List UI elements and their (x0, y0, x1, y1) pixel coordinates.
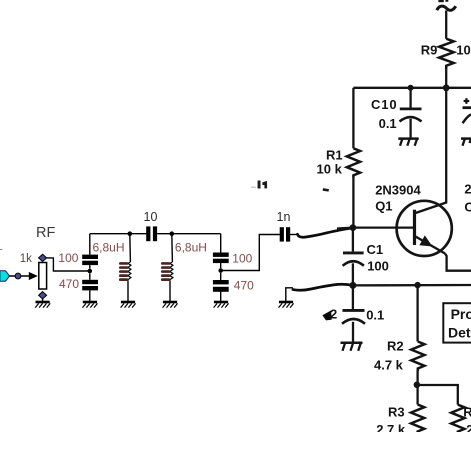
wire rail to R2 (416, 285, 418, 341)
capacitor C2 (352, 285, 354, 309)
resistor R3 (416, 385, 418, 405)
node divider junction (414, 382, 421, 389)
capacitor C1 (352, 228, 354, 252)
ground under C2 (rake) (341, 342, 363, 345)
svg-text:R2: R2 (387, 339, 404, 354)
potentiometer wiper arrow (29, 272, 38, 280)
svg-text:100: 100 (232, 252, 252, 266)
node L2 junction (170, 231, 175, 236)
wire right divider to 1n cap (221, 235, 280, 271)
resistor R1 (347, 148, 360, 177)
wire rail to R1 (352, 88, 354, 149)
svg-text:Q1: Q1 (375, 198, 392, 213)
node base junction (350, 224, 357, 231)
scan bottom cutoff (296, 432, 471, 466)
svg-text:0.1: 0.1 (379, 116, 397, 131)
svg-text:2N: 2N (464, 182, 471, 197)
svg-text:4.7 k: 4.7 k (374, 358, 404, 373)
node collector rail junction (443, 84, 450, 91)
node pot top (diamond) (39, 254, 47, 261)
wire R2 to divider junction (416, 371, 418, 385)
node pot bottom (diamond) (39, 292, 47, 299)
inductor L2 6,8uH (161, 234, 173, 301)
svg-text:6,8uH: 6,8uH (175, 241, 207, 255)
svg-text:Det: Det (448, 325, 471, 341)
label B+ (cut off at top) (438, 0, 448, 2)
svg-text:T: T (0, 249, 3, 261)
svg-text:RF: RF (36, 225, 55, 241)
wire input to wiper node (10, 275, 32, 277)
wire top rail (353, 87, 471, 89)
svg-text:1k: 1k (20, 253, 32, 265)
svg-text:0.1: 0.1 (366, 307, 384, 322)
potentiometer R-pot 1k body (39, 263, 47, 290)
svg-text:C1: C1 (367, 242, 384, 257)
svg-text:10: 10 (144, 210, 158, 224)
wire hand-drawn lower (ground stub to emitter rail) (293, 284, 353, 290)
wire emitter (445, 254, 471, 271)
svg-text:6,8uH: 6,8uH (93, 241, 125, 255)
plus sign of electrolytic (464, 98, 470, 104)
node wiper (15, 273, 21, 279)
capacitor 100 (right) (213, 234, 229, 269)
inductor L1 6,8uH (119, 234, 131, 301)
node junction right divider (218, 268, 223, 273)
wire junction to R4 (417, 385, 458, 405)
resistor R9 (439, 39, 454, 70)
ground under L1 (121, 302, 136, 308)
resistor R2 (411, 342, 424, 372)
node R2 junction (414, 282, 420, 288)
scribble blob over C2 (322, 310, 331, 320)
ground under potentiometer (35, 299, 50, 308)
capacitor 10 (series) (146, 226, 157, 241)
capacitor 100 (left) (82, 234, 98, 269)
svg-text:1n: 1n (277, 210, 291, 224)
capacitor C10 (409, 88, 411, 108)
svg-text:100: 100 (367, 258, 389, 273)
node C10 rail junction (408, 85, 414, 91)
ground under L2 (163, 302, 178, 308)
svg-text:470: 470 (59, 277, 79, 291)
annotation mark J1 (251, 181, 267, 189)
annotation dash (323, 188, 329, 192)
node L1 junction (128, 231, 133, 236)
capacitor 470 (left) (82, 273, 98, 301)
wire lower rail (353, 284, 471, 287)
wire hand-drawn upper (1n to base junction) (298, 228, 353, 237)
box Product Detector (cut at right edge) (443, 303, 471, 342)
capacitor 1n (series) (280, 227, 297, 241)
svg-text:R4: R4 (463, 405, 471, 420)
wire top rail left (90, 233, 147, 235)
svg-text:100: 100 (58, 251, 78, 265)
wire base (353, 226, 413, 228)
svg-text:C10: C10 (371, 97, 398, 112)
node junction C100/C470 left (88, 269, 93, 274)
electrolytic cap at right edge (cut off) (461, 108, 471, 146)
wire pot top to C divider node (47, 258, 88, 271)
ground under C10 (rake) (398, 137, 418, 140)
B+ break squiggle (437, 6, 456, 10)
svg-text:C: C (464, 200, 471, 215)
node C1/C2 junction (349, 282, 356, 289)
wire R9 to rail (445, 70, 447, 88)
resistor R4 (451, 405, 464, 434)
svg-text:Pro: Pro (451, 306, 471, 322)
svg-text:470: 470 (234, 279, 254, 293)
wire base stub left (337, 227, 353, 230)
svg-text:R9: R9 (421, 42, 438, 57)
ground under right divider (214, 302, 229, 308)
input connector (cyan arrow pad) (0, 271, 10, 281)
ground under C470 left (83, 302, 98, 308)
transistor Q1 2N3904 (397, 201, 452, 256)
wire top rail right (157, 233, 221, 235)
capacitor 470 (right) (213, 273, 229, 301)
svg-text:2N3904: 2N3904 (375, 182, 421, 197)
ground with stub (below 1n) (279, 288, 294, 308)
svg-text:R1: R1 (326, 147, 343, 162)
wire R1 to base junction (352, 178, 354, 228)
svg-text:100: 100 (456, 42, 471, 57)
svg-text:R3: R3 (388, 405, 405, 420)
wire B+ to R9 (445, 11, 447, 39)
svg-text:10 k: 10 k (317, 162, 343, 177)
